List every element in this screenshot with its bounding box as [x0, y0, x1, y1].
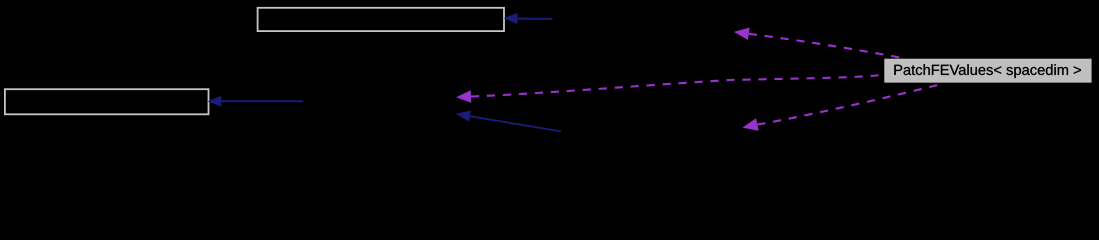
node PatchFEValues< spacedim > — [884, 59, 1091, 83]
dashed purple edge 1 (to upper-left) — [734, 28, 901, 58]
arrow blue A (to top box) — [504, 13, 553, 24]
node box top (empty label) — [258, 8, 504, 31]
arrow blue C (diagonal) — [456, 110, 561, 131]
dashed purple edge 2 (long, to middle-left) — [456, 74, 884, 103]
arrow blue B (to left box) — [208, 96, 304, 107]
node box left (empty label) — [5, 89, 209, 114]
dashed purple edge 3 (to lower-left) — [742, 83, 944, 131]
